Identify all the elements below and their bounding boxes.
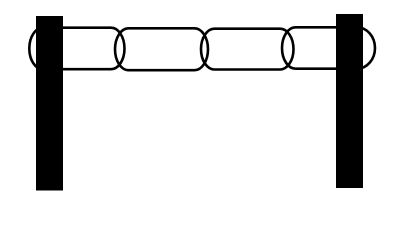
chain link 1 (left capsule link) — [29, 28, 124, 69]
right post (solid black bar) — [336, 14, 363, 188]
chain link 4 (right capsule link) — [282, 27, 375, 68]
chain link 3 (third capsule link) — [201, 29, 293, 70]
left post (solid black bar) — [36, 16, 63, 191]
chain link 2 (second capsule link) — [115, 28, 208, 70]
